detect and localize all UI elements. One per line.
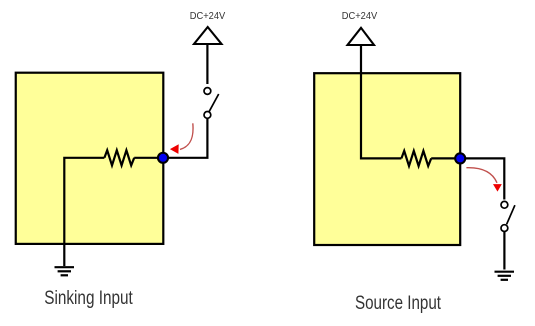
ground symbol (left) xyxy=(55,267,75,275)
switch SW1 bottom contact (left) xyxy=(204,112,211,119)
current-flow arrow (right, red curved) xyxy=(466,168,497,183)
svg-text:DC+24V: DC+24V xyxy=(342,10,378,22)
resistor R1 (left) xyxy=(104,150,134,165)
wire: triangle down into box to corner (right) xyxy=(361,45,401,158)
wire: triangle to switch (left) xyxy=(206,44,208,84)
node: input terminal (left, blue) xyxy=(158,153,168,163)
switch SW2 top contact (right) xyxy=(501,201,508,208)
wire: switch down and left to node (left) xyxy=(167,119,207,158)
node: input terminal (right, blue) xyxy=(455,153,465,163)
svg-text:Sinking Input: Sinking Input xyxy=(44,287,133,309)
svg-text:Source Input: Source Input xyxy=(355,292,441,314)
wire: resistor to node (right) xyxy=(431,157,460,159)
switch SW2 blade (right) xyxy=(507,205,515,224)
wire: resistor to corner then down to ground (left) xyxy=(64,158,104,266)
current-flow arrow (left, red curved) xyxy=(180,123,193,149)
wire: node right then down to switch (right) xyxy=(460,158,504,199)
svg-text:DC+24V: DC+24V xyxy=(190,10,226,22)
switch SW1 blade (left) xyxy=(209,94,219,112)
power supply triangle symbol (left) xyxy=(194,27,222,44)
PLC input module box (left) xyxy=(16,73,164,244)
PLC input module box (right) xyxy=(314,73,460,245)
wire: switch to ground (right) xyxy=(503,232,505,270)
switch SW2 bottom contact (right) xyxy=(501,225,508,232)
resistor R2 (right) xyxy=(401,151,431,166)
wire: node to resistor (left) xyxy=(134,157,163,159)
ground symbol (right) xyxy=(495,272,515,280)
switch SW1 top contact (left) xyxy=(204,88,211,95)
power supply triangle symbol (right) xyxy=(348,28,375,45)
